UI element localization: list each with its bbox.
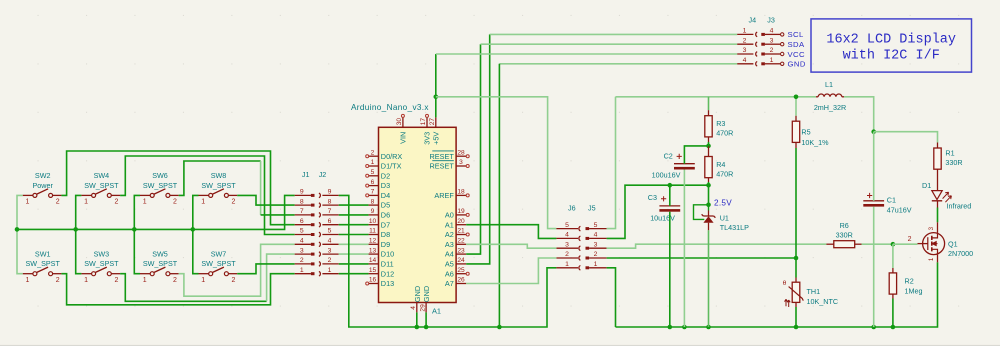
svg-text:A1: A1 (432, 307, 441, 316)
svg-text:2: 2 (232, 277, 236, 284)
svg-text:4: 4 (743, 57, 747, 64)
svg-text:J4: J4 (749, 15, 757, 24)
svg-text:R4: R4 (716, 160, 725, 169)
svg-text:8: 8 (328, 198, 332, 205)
svg-text:A0: A0 (445, 211, 454, 220)
dangling marker on A6 pin 25 (466, 272, 469, 275)
wire SDA to J4 pin2 (481, 43, 738, 45)
Arduino pin 14 (D11) (369, 257, 394, 268)
svg-text:R1: R1 (945, 149, 954, 158)
connector J2 pin 9 (319, 189, 339, 198)
svg-text:1: 1 (201, 277, 205, 284)
svg-text:10K_1%: 10K_1% (801, 138, 829, 147)
svg-text:10: 10 (369, 218, 377, 225)
switch SW8 (SW_SPST) (199, 171, 238, 206)
svg-text:RESET: RESET (429, 152, 454, 161)
svg-text:28: 28 (457, 149, 465, 156)
connector J1 pin 3 (295, 247, 315, 255)
svg-text:25: 25 (457, 267, 465, 274)
svg-text:with I2C I/F: with I2C I/F (843, 49, 940, 64)
wire +5V to L1 (709, 96, 817, 98)
wire J2 pin1 to Arduino D12 (339, 273, 369, 275)
wire VCC to J4 pin3 (436, 53, 737, 55)
svg-text:17: 17 (420, 118, 427, 126)
switch SW2 (Power) (23, 171, 62, 206)
svg-text:2N7000: 2N7000 (948, 249, 973, 258)
junction (794, 256, 799, 261)
connector J5 pin 5 (586, 222, 607, 230)
svg-text:D1: D1 (922, 181, 931, 190)
svg-text:R3: R3 (716, 119, 725, 128)
wire SCL to J4 pin1 (490, 33, 738, 35)
wire U1 anode to GND rail (708, 230, 710, 327)
svg-text:2: 2 (232, 199, 236, 206)
wire gate node to Q1 gate (893, 243, 918, 245)
Arduino pin 17 (3V3) (420, 117, 432, 144)
dangling marker on D1/TX (366, 165, 369, 168)
svg-text:2: 2 (770, 47, 774, 54)
dangling marker on D4 (366, 194, 369, 197)
svg-text:SCL: SCL (788, 30, 804, 39)
junction 2.5V line (706, 183, 711, 188)
connector J2 pin 7 (319, 208, 339, 217)
svg-text:26: 26 (457, 277, 465, 284)
wire J2 pin9 / GND rail left to J6 pin1 (339, 195, 557, 327)
junction (497, 325, 502, 330)
Arduino pin 18 (AREF) (434, 189, 466, 200)
dangling marker on A2 pin 21 (466, 233, 469, 236)
Arduino pin 7 (D4) (369, 189, 391, 200)
Arduino pin 5 (D2) (369, 169, 391, 180)
svg-text:A7: A7 (445, 279, 454, 288)
Arduino pin 6 (D3) (369, 179, 391, 190)
svg-text:D7: D7 (381, 220, 390, 229)
Arduino pin 2 (D0/RX) (369, 149, 403, 160)
svg-text:4: 4 (410, 306, 417, 310)
svg-text:SDA: SDA (788, 40, 805, 49)
junction C3/2.5V line (668, 183, 673, 188)
connector J1 pin 2 (295, 257, 315, 265)
junction +5V/R5 (794, 95, 799, 100)
svg-text:1: 1 (770, 57, 774, 64)
svg-text:470R: 470R (716, 129, 733, 138)
svg-text:5: 5 (565, 222, 569, 229)
connector J1 pin 8 (295, 198, 315, 206)
svg-text:SW3: SW3 (94, 249, 110, 258)
transistor Q1 2N7000 (908, 222, 974, 262)
Arduino pin 29 (GND) (420, 286, 432, 313)
svg-text:J5: J5 (588, 204, 596, 213)
svg-text:AREF: AREF (434, 191, 454, 200)
wire 2.5V to U1 cathode (708, 205, 710, 211)
svg-text:A4: A4 (445, 250, 454, 259)
svg-text:5: 5 (594, 222, 598, 229)
svg-text:1: 1 (594, 261, 598, 268)
switch SW5 (SW_SPST) (140, 249, 179, 284)
Arduino pin 26 (A7) (445, 277, 466, 288)
dangling marker on D13 (366, 282, 369, 285)
connector J5 pin 4 (586, 232, 607, 240)
svg-text:16: 16 (369, 277, 377, 284)
svg-text:2: 2 (114, 199, 118, 206)
wire C1 top (873, 132, 875, 201)
connector J2 pin 8 (319, 198, 339, 207)
wire GND rail right / Q1 source (616, 262, 938, 327)
dangling marker on VIN (401, 114, 404, 117)
svg-text:D6: D6 (381, 211, 390, 220)
wire SW6 stub to J1 pin7 (261, 214, 295, 216)
connector J5 pin 2 (586, 251, 607, 259)
connector J6 pin 4 (556, 232, 580, 241)
svg-text:C2: C2 (664, 151, 673, 160)
Arduino pin 22 (A3) (445, 238, 466, 249)
junction L1/C1/R1 (871, 129, 876, 134)
svg-text:SW5: SW5 (152, 249, 168, 258)
wire C2 bottom to GND rail (683, 170, 685, 328)
Arduino pin 27 (+5V) (429, 117, 441, 144)
svg-text:SW7: SW7 (211, 249, 227, 258)
wire C1 bottom to GND rail (873, 207, 875, 327)
junction (668, 325, 673, 330)
dangling marker on RESET pin 3 (466, 165, 469, 168)
connector J1 pin 6 (295, 218, 315, 226)
junction (415, 325, 420, 330)
Arduino pin 21 (A2) (445, 228, 466, 239)
svg-text:9: 9 (300, 189, 304, 196)
svg-text:GND: GND (788, 60, 806, 69)
junction on common bus (191, 227, 196, 232)
svg-text:1: 1 (25, 199, 29, 206)
svg-text:2: 2 (565, 251, 569, 258)
Arduino pin 15 (D12) (369, 267, 395, 278)
wire R3 bottom (708, 142, 710, 146)
svg-text:4: 4 (770, 28, 774, 35)
svg-text:R2: R2 (905, 277, 914, 286)
junction on common bus (132, 227, 137, 232)
thermistor TH1 10K_NTC (783, 280, 838, 307)
connector J4 pin 3 (737, 47, 757, 56)
svg-text:GND: GND (422, 286, 431, 302)
svg-text:θ: θ (783, 280, 787, 287)
svg-text:RESET: RESET (429, 162, 454, 171)
svg-text:3: 3 (565, 241, 569, 248)
svg-text:D3: D3 (381, 181, 390, 190)
resistor R6 330R (834, 221, 855, 248)
resistor R2 1Meg (889, 273, 922, 296)
wire R5 bottom to TH1 (795, 148, 797, 278)
svg-text:4: 4 (300, 238, 304, 245)
connector J6 pin 5 (556, 222, 580, 231)
wire +5V VCC riser (435, 54, 437, 117)
wire J2 pin6 to Arduino D7 (339, 224, 369, 226)
Arduino pin 11 (D8) (369, 228, 391, 239)
svg-text:SW_SPST: SW_SPST (84, 181, 119, 190)
wire GND pin4 to rail (416, 312, 418, 327)
connector J1 pin 5 (295, 228, 315, 236)
svg-text:A2: A2 (445, 230, 454, 239)
wire J5 pin3 gate net to R6 (607, 244, 827, 248)
junction gate/R2 (891, 242, 896, 247)
switch SW3 (SW_SPST) (81, 249, 120, 284)
Arduino pin 8 (D5) (369, 198, 391, 209)
svg-text:D8: D8 (381, 230, 390, 239)
svg-text:2: 2 (114, 277, 118, 284)
wire common bus to J1 pin9 (17, 195, 295, 229)
wire +5V to R3 (616, 96, 709, 98)
wire SW6 riser (260, 161, 262, 215)
switch SW6 (SW_SPST) (140, 171, 179, 206)
svg-text:VIN: VIN (399, 132, 408, 144)
svg-text:A3: A3 (445, 240, 454, 249)
connector J2 pin 5 (319, 228, 339, 237)
svg-text:6: 6 (300, 218, 304, 225)
svg-text:VCC: VCC (788, 50, 805, 59)
svg-text:SW_SPST: SW_SPST (201, 259, 236, 268)
svg-text:2: 2 (300, 257, 304, 264)
wire +5V to J6 pin5 (436, 97, 557, 229)
connector J2 pin 2 (319, 257, 339, 266)
svg-text:23: 23 (457, 247, 465, 254)
svg-text:D0/RX: D0/RX (381, 152, 403, 161)
wire J2 pin7 to Arduino D6 (339, 214, 369, 216)
wire J2 pin4 to Arduino D9 (339, 243, 369, 245)
svg-text:2: 2 (173, 199, 177, 206)
dangling marker on D0/RX (366, 155, 369, 158)
junction +5V (434, 95, 439, 100)
wire D1 cathode to Q1 drain (937, 208, 939, 223)
svg-text:SW2: SW2 (35, 171, 51, 180)
wire A5 SCL riser (466, 34, 490, 264)
wire R6 to gate node (862, 243, 893, 245)
wire SW2 to J1 pin6 (61, 151, 294, 225)
inductor L1 2mH_32R (814, 80, 846, 112)
connector J1 pin 4 (295, 238, 315, 246)
svg-text:D2: D2 (381, 171, 390, 180)
connector J6 pin 3 (556, 241, 580, 250)
connector J2 pin 4 (319, 238, 339, 247)
svg-text:13: 13 (369, 247, 377, 254)
junction (891, 325, 896, 330)
wire +5V to R3 top (708, 97, 710, 110)
svg-text:J2: J2 (319, 170, 327, 179)
wire SW6 top wrap (179, 161, 261, 195)
junction on common bus (15, 227, 20, 232)
wire common column SW8/SW7 (193, 195, 199, 273)
Arduino pin 10 (D7) (369, 218, 391, 229)
svg-text:3: 3 (594, 241, 598, 248)
svg-text:SW_SPST: SW_SPST (84, 259, 119, 268)
capacitor C3 10u16V (648, 193, 680, 223)
Arduino pin 13 (D10) (369, 247, 395, 258)
wire J2 pin5 to Arduino D8 (339, 234, 369, 236)
wire +5V to R5 (795, 97, 797, 116)
svg-text:SW8: SW8 (211, 171, 227, 180)
junction on common bus (73, 227, 78, 232)
svg-text:1: 1 (84, 277, 88, 284)
dangling marker on A0 pin 19 (466, 213, 469, 216)
wire C3 bottom to GND rail (669, 212, 671, 327)
svg-text:9: 9 (328, 189, 332, 196)
connector J1 pin 9 (295, 189, 315, 197)
svg-text:1: 1 (300, 267, 304, 274)
Arduino pin 30 (VIN) (396, 117, 408, 143)
svg-text:SW1: SW1 (35, 249, 51, 258)
junction (871, 325, 876, 330)
svg-text:1: 1 (201, 199, 205, 206)
svg-text:100u16V: 100u16V (652, 171, 681, 180)
Arduino pin 23 (A4) (445, 247, 466, 258)
svg-text:D12: D12 (381, 269, 394, 278)
wire J2 pin2 to Arduino D11 (339, 263, 369, 265)
svg-text:TH1: TH1 (807, 287, 821, 296)
svg-text:2mH_32R: 2mH_32R (814, 103, 846, 112)
connector J6 pin 2 (556, 251, 580, 260)
svg-text:2: 2 (908, 236, 912, 243)
svg-text:1: 1 (565, 261, 569, 268)
wire GND pin29 to rail (425, 312, 427, 327)
junction (682, 325, 687, 330)
svg-text:J3: J3 (767, 15, 775, 24)
junction (424, 325, 429, 330)
capacitor C1 47u16V (863, 193, 911, 215)
resistor R3 470R (705, 116, 734, 138)
svg-text:SW4: SW4 (94, 171, 110, 180)
connector J4 pin 4 (737, 57, 757, 66)
svg-text:1: 1 (928, 257, 935, 261)
wire TH1 bottom to GND rail (795, 307, 797, 327)
wire 2.5V node (708, 185, 710, 205)
wire C2 top to R3/R4 junction (684, 146, 708, 164)
Arduino pin 12 (D9) (369, 238, 391, 249)
Arduino pin 3 (RESET) (429, 159, 466, 170)
svg-text:5: 5 (371, 169, 375, 176)
wire J5 pin5 +5V riser (607, 97, 616, 229)
svg-text:1: 1 (371, 159, 375, 166)
svg-text:3: 3 (743, 47, 747, 54)
svg-text:11: 11 (369, 228, 376, 235)
svg-text:C1: C1 (887, 196, 896, 205)
connector J3 pin 3 (761, 37, 784, 46)
svg-text:27: 27 (429, 118, 436, 126)
svg-text:2: 2 (56, 277, 60, 284)
svg-text:6: 6 (328, 218, 332, 225)
svg-text:SW_SPST: SW_SPST (26, 259, 61, 268)
LED D1 Infrared (922, 169, 971, 210)
svg-text:3: 3 (459, 159, 463, 166)
svg-text:Arduino_Nano_v3.x: Arduino_Nano_v3.x (351, 103, 429, 112)
svg-text:TL431LP: TL431LP (720, 223, 749, 232)
op-amp U1... Arduino Nano module A1 body (379, 127, 457, 302)
svg-text:D9: D9 (381, 240, 390, 249)
svg-text:2: 2 (743, 37, 747, 44)
svg-text:3: 3 (770, 37, 774, 44)
connector J5 pin 1 (586, 261, 607, 269)
connector J3 pin 4 (761, 28, 784, 37)
wire C3 top to 2.5V line (669, 185, 671, 206)
wire R4 bottom to 2.5V line (708, 182, 710, 185)
wire L1 to C1/R1 node (844, 97, 874, 132)
wire J5 pin1 to GND rail right (607, 268, 616, 327)
svg-text:A6: A6 (445, 269, 454, 278)
svg-text:7: 7 (371, 189, 375, 196)
Arduino pin 20 (A1) (445, 218, 466, 229)
dangling marker on 3V3 (426, 114, 429, 117)
svg-text:470R: 470R (716, 169, 733, 178)
wire J5 pin4 to 2.5V node (607, 185, 709, 238)
svg-text:5: 5 (328, 228, 332, 235)
connector J2 pin 6 (319, 218, 339, 227)
connector J2 pin 3 (319, 247, 339, 256)
dangling marker on D2 (366, 174, 369, 177)
svg-text:D13: D13 (381, 279, 394, 288)
wire J2 pin3 to Arduino D10 (339, 253, 369, 255)
svg-text:21: 21 (457, 228, 465, 235)
svg-text:D4: D4 (381, 191, 390, 200)
svg-text:5: 5 (300, 228, 304, 235)
svg-text:SW6: SW6 (152, 171, 168, 180)
connector J4 pin 1 (737, 28, 757, 37)
wire SW8 to J1 pin8 (237, 195, 295, 205)
connector J1 pin 1 (295, 267, 315, 275)
switch SW1 (SW_SPST) (23, 249, 62, 284)
junction (706, 325, 711, 330)
svg-text:4: 4 (328, 238, 332, 245)
svg-text:D10: D10 (381, 250, 394, 259)
svg-text:D1/TX: D1/TX (381, 162, 402, 171)
wire SW5 to J1 pin4 (179, 244, 295, 296)
svg-text:30: 30 (396, 118, 403, 126)
capacitor C2 100u16V (652, 151, 695, 179)
svg-text:L1: L1 (825, 80, 833, 89)
Arduino pin 4 (GND) (410, 286, 422, 313)
svg-text:2: 2 (371, 149, 375, 156)
svg-text:18: 18 (457, 189, 465, 196)
svg-text:2.5V: 2.5V (714, 199, 732, 208)
U1 TL431LP shunt reference (702, 205, 749, 232)
svg-text:8: 8 (300, 198, 304, 205)
svg-text:+5V: +5V (432, 132, 441, 145)
Arduino pin 24 (A5) (445, 257, 466, 268)
svg-text:SW_SPST: SW_SPST (201, 181, 236, 190)
dangling marker on RESET pin 28 (466, 155, 469, 158)
wire common column SW2/SW1 (17, 195, 23, 273)
svg-text:2: 2 (173, 277, 177, 284)
svg-text:1: 1 (84, 199, 88, 206)
wire R2 bottom to GND rail (892, 299, 894, 328)
svg-text:1: 1 (25, 277, 29, 284)
LCD display note box (811, 19, 972, 72)
svg-text:3V3: 3V3 (423, 132, 432, 145)
resistor R1 330R (934, 148, 963, 169)
switch SW4 (SW_SPST) (81, 171, 120, 206)
svg-text:16x2 LCD Display: 16x2 LCD Display (826, 33, 956, 48)
wire A3 to J6 pin3 (466, 244, 556, 248)
junction 2.5V node (706, 203, 711, 208)
resistor R4 470R (705, 157, 734, 179)
svg-text:Infrared: Infrared (947, 201, 972, 210)
svg-text:R6: R6 (840, 221, 849, 230)
svg-text:2: 2 (594, 251, 598, 258)
wire U1 ref loop (694, 205, 709, 220)
svg-text:47u16V: 47u16V (887, 205, 912, 214)
Arduino pin 28 (RESET) (429, 149, 466, 160)
svg-text:1Meg: 1Meg (905, 287, 923, 296)
svg-text:20: 20 (457, 218, 465, 225)
wire A1 to J6 pin4 (466, 225, 556, 239)
svg-text:D5: D5 (381, 201, 390, 210)
Arduino pin 9 (D6) (369, 208, 391, 219)
svg-text:C3: C3 (648, 193, 657, 202)
